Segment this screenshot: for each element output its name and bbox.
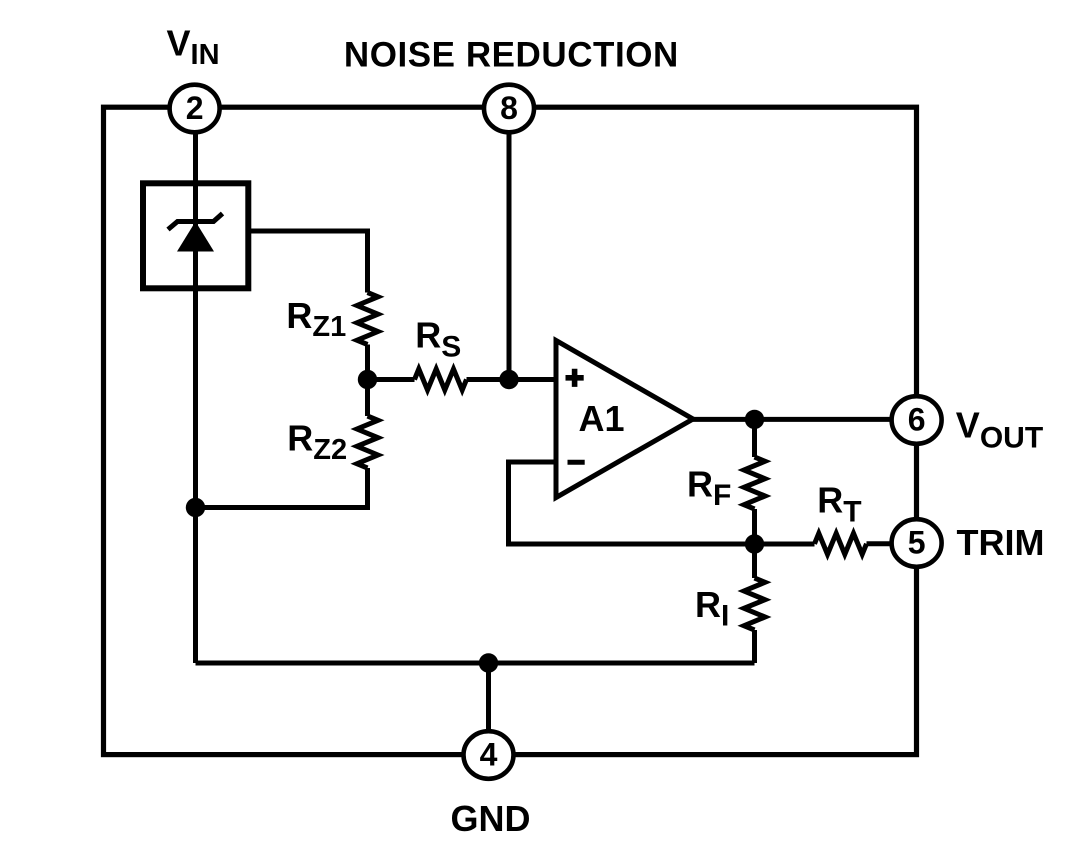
junction node F gnd rail/pin4 [479, 653, 498, 672]
junction node A RZ1/RZ2/RS [358, 370, 377, 389]
wire: RT to pin5 [867, 541, 896, 546]
wire: RZ1 bottom to node A [365, 345, 370, 380]
svg-text:NOISE REDUCTION: NOISE REDUCTION [344, 36, 679, 75]
zener diode D1 triangle [177, 222, 214, 252]
svg-text:TRIM: TRIM [957, 522, 1045, 563]
IC boundary box [104, 107, 917, 754]
junction node C RS/pin8/+in [499, 370, 518, 389]
wire: feedback -input loop [509, 462, 755, 544]
pin 8 NOISE REDUCTION [484, 85, 534, 133]
resistor RI [744, 578, 765, 630]
svg-text:GND: GND [451, 798, 531, 839]
wire: zener to RZ1 [251, 231, 368, 293]
junction node E RF/RT/RI [745, 534, 764, 553]
svg-text:6: 6 [908, 401, 926, 437]
pin 4 GND [464, 731, 514, 779]
wire: output node to RF [752, 419, 757, 457]
svg-text:4: 4 [480, 736, 498, 772]
wire: node A to RZ2 [365, 380, 370, 417]
resistor RZ1 [357, 293, 378, 345]
resistor RF [744, 457, 765, 509]
wire: node A to RS [368, 377, 415, 382]
wire: ground rail to pin4 [486, 663, 491, 735]
svg-text:2: 2 [186, 90, 204, 126]
op-amp - input sign [568, 460, 585, 465]
resistor RZ2 [357, 416, 378, 468]
pin 5 TRIM [892, 519, 942, 567]
svg-text:A1: A1 [578, 398, 624, 439]
svg-text:5: 5 [908, 524, 926, 560]
resistor RS [415, 369, 467, 390]
wire: node E to RI [752, 544, 757, 578]
wire: node E to RT [755, 542, 815, 547]
junction node D out/RF [745, 410, 764, 429]
op-amp A1 [556, 341, 693, 498]
svg-text:8: 8 [500, 90, 518, 126]
wire: op-amp output to pin6 [693, 417, 895, 422]
wire: RF bottom to node E [752, 509, 757, 544]
pin 2 VIN [170, 85, 220, 133]
op-amp + input sign [566, 369, 584, 387]
wire: pin8 stem to +input node [507, 130, 512, 380]
zener cell box [143, 183, 248, 288]
wire: inner ground rail [196, 661, 755, 666]
junction node B RZ2/VIN rail [186, 498, 205, 517]
pin 6 VOUT [892, 396, 942, 444]
zener diode D1 cathode bar [168, 214, 223, 230]
wire: RS to node C and op-amp +input [467, 377, 557, 382]
wire: RZ2 bottom left to VIN rail [196, 468, 368, 508]
wire: VIN rail pin2 to bottom node [193, 130, 198, 663]
resistor RT [815, 533, 867, 554]
wire: RI bottom to ground rail [752, 630, 757, 663]
